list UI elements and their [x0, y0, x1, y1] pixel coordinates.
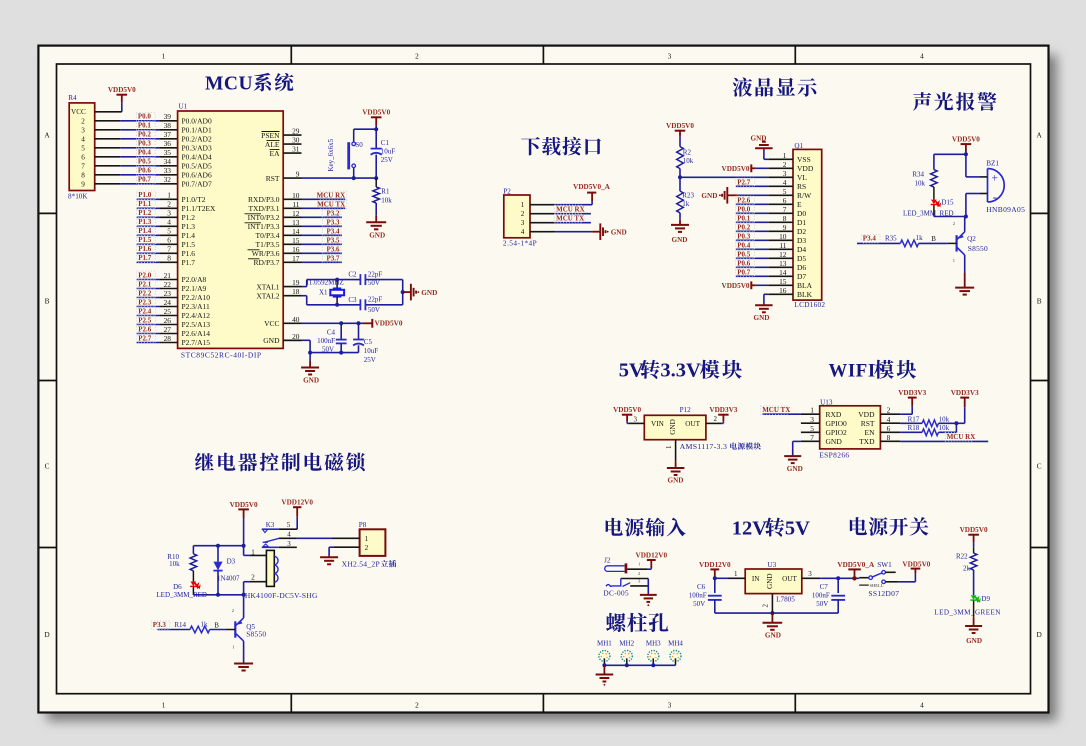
- svg-text:8: 8: [81, 171, 85, 179]
- svg-text:2: 2: [713, 415, 717, 423]
- svg-text:22pF: 22pF: [368, 270, 383, 278]
- svg-text:VDD3V3: VDD3V3: [951, 389, 979, 397]
- svg-text:S0: S0: [355, 141, 363, 149]
- svg-text:P0.7/AD7: P0.7/AD7: [182, 180, 212, 189]
- svg-text:4: 4: [81, 135, 85, 143]
- svg-text:SW1: SW1: [877, 561, 892, 569]
- wire bottom rail: [193, 593, 243, 597]
- svg-text:P2.5/A13: P2.5/A13: [182, 320, 211, 329]
- power port VDD3V3 at U13 VDD: [898, 389, 926, 414]
- svg-text:Q2: Q2: [967, 235, 976, 243]
- svg-text:23: 23: [164, 289, 172, 298]
- svg-text:11: 11: [779, 241, 786, 250]
- svg-text:13: 13: [779, 259, 787, 268]
- svg-text:GND: GND: [421, 289, 437, 297]
- svg-text:VDD3V3: VDD3V3: [898, 389, 926, 397]
- power port VDD5V0 at Q1 pin2: [722, 164, 769, 173]
- svg-text:31: 31: [292, 145, 300, 154]
- svg-text:C5: C5: [364, 338, 373, 346]
- wires P0.0-P0.7 to D0-D7: [736, 205, 769, 277]
- wire U3 pin2 ground: [762, 594, 773, 623]
- svg-text:VCC: VCC: [71, 108, 86, 116]
- svg-text:29: 29: [292, 127, 300, 136]
- svg-text:7: 7: [167, 245, 171, 254]
- svg-text:3: 3: [668, 52, 672, 61]
- wire bottom rail U3: [715, 611, 838, 615]
- svg-text:GND: GND: [765, 631, 781, 639]
- svg-text:7: 7: [81, 162, 85, 170]
- svg-text:21: 21: [164, 271, 172, 280]
- svg-text:1: 1: [162, 52, 166, 61]
- svg-text:GND: GND: [787, 465, 803, 473]
- svg-text:1: 1: [953, 258, 955, 263]
- svg-text:IN: IN: [752, 575, 760, 583]
- svg-text:P2.6/A14: P2.6/A14: [182, 329, 211, 338]
- svg-text:15: 15: [779, 277, 787, 286]
- wires buzzer to rail: [966, 177, 980, 217]
- svg-text:VDD5V0: VDD5V0: [362, 109, 390, 117]
- svg-text:P1.5: P1.5: [138, 236, 152, 244]
- power port VDD5V0_A: [573, 183, 611, 201]
- svg-text:4: 4: [920, 52, 924, 61]
- svg-text:GND: GND: [611, 229, 627, 237]
- svg-text:TXD: TXD: [859, 437, 875, 446]
- svg-text:1: 1: [232, 645, 234, 650]
- svg-text:INT0/P3.2: INT0/P3.2: [248, 213, 280, 222]
- wires R4 to U1 P0 bus: [95, 121, 178, 184]
- svg-text:P3.2: P3.2: [326, 210, 340, 218]
- svg-text:1: 1: [162, 701, 166, 710]
- power port VDD12V0 at U3: [699, 561, 745, 581]
- svg-text:P0.7: P0.7: [138, 176, 152, 184]
- svg-text:P2.1/A9: P2.1/A9: [182, 284, 207, 293]
- svg-text:VDD5V0: VDD5V0: [666, 122, 694, 130]
- capacitor C1: [371, 129, 396, 178]
- svg-text:VDD12V0: VDD12V0: [636, 551, 668, 559]
- svg-text:RST: RST: [861, 419, 875, 428]
- wire MCU TX to RXD: [761, 406, 801, 415]
- svg-text:S8550: S8550: [246, 629, 266, 638]
- svg-text:GND: GND: [672, 236, 688, 244]
- svg-text:EN: EN: [865, 428, 876, 437]
- title download port: [521, 137, 601, 156]
- svg-text:1: 1: [365, 535, 369, 543]
- svg-text:8: 8: [167, 254, 171, 263]
- svg-text:P2.6: P2.6: [737, 196, 751, 204]
- svg-text:P3.4: P3.4: [863, 235, 877, 243]
- svg-text:P3.3: P3.3: [153, 621, 167, 629]
- svg-text:STC89C52RC-40I-DIP: STC89C52RC-40I-DIP: [181, 351, 262, 360]
- wire MCU RX from pin10: [302, 191, 347, 200]
- LED D9: [934, 595, 1001, 617]
- svg-text:PSEN: PSEN: [261, 131, 280, 140]
- svg-text:R4: R4: [68, 94, 77, 102]
- svg-text:1: 1: [251, 548, 255, 556]
- svg-text:B: B: [931, 235, 936, 243]
- svg-text:D2: D2: [797, 227, 806, 236]
- svg-text:GND: GND: [263, 336, 280, 345]
- svg-text:VDD5V0: VDD5V0: [375, 320, 403, 328]
- svg-text:2: 2: [638, 571, 640, 576]
- svg-text:1: 1: [638, 562, 640, 567]
- svg-text:P0.1: P0.1: [138, 122, 152, 130]
- svg-text:3: 3: [810, 415, 814, 424]
- svg-text:1: 1: [783, 151, 787, 160]
- svg-text:2.54-1*4P: 2.54-1*4P: [503, 239, 537, 248]
- svg-text:P0.4: P0.4: [138, 149, 152, 157]
- svg-text:P0.2/AD2: P0.2/AD2: [182, 135, 212, 144]
- svg-text:P1.0: P1.0: [138, 191, 152, 199]
- pin numbers 21-28: [164, 271, 172, 343]
- svg-text:35: 35: [164, 148, 172, 157]
- svg-text:D: D: [1037, 630, 1042, 639]
- svg-text:P0.6: P0.6: [737, 259, 751, 267]
- LED D15: [903, 199, 954, 218]
- svg-text:P1.5: P1.5: [182, 240, 196, 249]
- svg-text:3: 3: [167, 209, 171, 218]
- svg-text:VDD12V0: VDD12V0: [699, 561, 731, 569]
- regulator U3 L7805: [745, 561, 802, 604]
- svg-text:GND: GND: [303, 377, 319, 385]
- capacitor C4: [317, 323, 347, 353]
- diode D3: [213, 546, 240, 595]
- svg-text:10k: 10k: [915, 179, 926, 187]
- svg-text:P1.3: P1.3: [182, 222, 196, 231]
- ground at P12: [665, 440, 685, 485]
- svg-text:4: 4: [783, 178, 787, 187]
- svg-text:P3.5: P3.5: [326, 237, 340, 245]
- ground port at crystal: [403, 284, 438, 301]
- svg-text:P0.0: P0.0: [737, 205, 751, 213]
- svg-text:P2.1: P2.1: [138, 280, 152, 288]
- svg-text:P1.4: P1.4: [138, 227, 152, 235]
- wire alarm top rail: [934, 152, 968, 177]
- svg-text:P2.0/A8: P2.0/A8: [182, 275, 207, 284]
- svg-text:P0.3: P0.3: [138, 140, 152, 148]
- svg-text:R34: R34: [912, 170, 924, 178]
- svg-text:P0.1: P0.1: [737, 214, 751, 222]
- svg-text:P1.7: P1.7: [182, 258, 196, 267]
- svg-text:R18: R18: [908, 424, 920, 432]
- net labels P1.0-P1.7: [137, 191, 156, 263]
- svg-text:11.0592MHZ: 11.0592MHZ: [306, 279, 344, 287]
- svg-text:9: 9: [296, 170, 300, 179]
- svg-text:4: 4: [287, 531, 291, 539]
- svg-text:28: 28: [164, 334, 172, 343]
- svg-text:P1.1/T2EX: P1.1/T2EX: [182, 204, 217, 213]
- resistor R18: [900, 424, 956, 436]
- svg-text:RST: RST: [266, 174, 280, 183]
- svg-text:8: 8: [887, 433, 891, 442]
- wire TXD MCU RX: [900, 433, 988, 442]
- svg-text:P1.6: P1.6: [138, 245, 152, 253]
- ground at Q5: [234, 663, 253, 671]
- svg-text:EA: EA: [270, 149, 281, 158]
- VCC rail wire: [302, 321, 364, 325]
- svg-text:25V: 25V: [364, 356, 376, 364]
- svg-text:VDD5V0: VDD5V0: [230, 501, 258, 509]
- svg-text:10: 10: [292, 191, 300, 200]
- svg-text:38: 38: [164, 121, 172, 130]
- svg-text:25: 25: [164, 307, 172, 316]
- svg-text:9: 9: [783, 223, 787, 232]
- svg-text:100nF: 100nF: [812, 592, 830, 600]
- resistor R2: [677, 147, 694, 178]
- svg-text:14: 14: [292, 227, 300, 236]
- title MCU system: [205, 73, 293, 94]
- svg-text:2: 2: [415, 701, 419, 710]
- svg-text:10uF: 10uF: [364, 347, 379, 355]
- capacitor C6: [689, 578, 722, 613]
- svg-text:13: 13: [292, 218, 300, 227]
- svg-text:VSS: VSS: [797, 155, 811, 164]
- svg-text:17: 17: [292, 254, 300, 263]
- svg-text:2: 2: [762, 604, 770, 608]
- svg-text:6: 6: [783, 196, 787, 205]
- svg-text:1: 1: [665, 445, 673, 449]
- svg-text:12: 12: [779, 250, 787, 259]
- svg-text:14: 14: [779, 268, 787, 277]
- wire P2.6 to E: [736, 196, 769, 205]
- svg-text:VDD5V0: VDD5V0: [722, 282, 750, 290]
- svg-text:37: 37: [164, 130, 172, 139]
- svg-text:P0.0: P0.0: [138, 113, 152, 121]
- svg-text:7: 7: [783, 205, 787, 214]
- svg-text:VDD: VDD: [858, 410, 875, 419]
- svg-text:P1.2: P1.2: [138, 209, 152, 217]
- svg-text:C: C: [45, 462, 50, 471]
- title relay control lock: [195, 452, 365, 471]
- power port VDD3V3 at P12: [706, 406, 738, 423]
- svg-text:B: B: [45, 297, 50, 306]
- wire MCU RX to P2 pin2: [555, 205, 591, 214]
- ground port at P2: [592, 223, 627, 240]
- resistor R35: [885, 234, 947, 247]
- svg-text:5: 5: [81, 144, 85, 152]
- svg-text:P0.6: P0.6: [138, 167, 152, 175]
- svg-text:P0.4/AD4: P0.4/AD4: [182, 153, 212, 162]
- svg-text:20: 20: [292, 332, 300, 341]
- svg-text:C4: C4: [327, 328, 336, 336]
- svg-text:P1.0/T2: P1.0/T2: [182, 195, 206, 204]
- svg-text:36: 36: [164, 139, 172, 148]
- svg-text:2: 2: [415, 52, 419, 61]
- svg-text:P2.4/A12: P2.4/A12: [182, 311, 211, 320]
- U1 left pin stubs P1 P2: [137, 199, 178, 342]
- svg-text:HNB09A05: HNB09A05: [986, 205, 1025, 214]
- svg-text:3: 3: [81, 126, 85, 134]
- svg-text:GND: GND: [826, 437, 843, 446]
- svg-text:22pF: 22pF: [368, 296, 383, 304]
- switch SW1: [859, 561, 899, 598]
- svg-text:D3: D3: [227, 557, 236, 565]
- svg-text:3: 3: [668, 701, 672, 710]
- svg-text:INT1/P3.3: INT1/P3.3: [248, 222, 280, 231]
- svg-text:ALE: ALE: [265, 140, 280, 149]
- ground at R23: [671, 220, 689, 244]
- svg-text:27: 27: [164, 325, 172, 334]
- resistor R17: [900, 415, 956, 426]
- svg-text:10k: 10k: [381, 196, 392, 204]
- svg-text:19: 19: [292, 278, 300, 287]
- svg-text:5: 5: [783, 187, 787, 196]
- svg-text:D0: D0: [797, 209, 806, 218]
- svg-text:6: 6: [887, 424, 891, 433]
- svg-text:P2.7: P2.7: [737, 178, 751, 186]
- svg-text:VDD5V0_A: VDD5V0_A: [837, 561, 875, 569]
- pin numbers 1-8: [167, 191, 171, 263]
- svg-text:10k: 10k: [939, 415, 950, 423]
- connector J2 DC-005: [603, 557, 648, 598]
- mounting holes MH1-MH4: [597, 639, 683, 665]
- wire reset top rail: [354, 127, 379, 131]
- title WIFI module: [829, 360, 917, 382]
- svg-text:4: 4: [521, 228, 525, 236]
- title power input: [606, 518, 686, 537]
- svg-text:2k: 2k: [963, 564, 971, 572]
- svg-text:10uF: 10uF: [381, 147, 396, 155]
- svg-text:P0.5: P0.5: [138, 158, 152, 166]
- svg-text:+: +: [992, 172, 999, 184]
- power port VDD5V0 right of switch: [902, 560, 930, 573]
- svg-text:2: 2: [232, 608, 234, 613]
- svg-text:Key_6x6x5: Key_6x6x5: [327, 138, 335, 171]
- power port VDD5V0_A at switch: [837, 561, 875, 581]
- svg-text:D: D: [44, 630, 49, 639]
- svg-text:XTAL1: XTAL1: [256, 282, 279, 291]
- ground at C4 C5: [301, 353, 319, 385]
- svg-text:5V: 5V: [785, 517, 810, 539]
- svg-text:P2.7: P2.7: [138, 334, 152, 342]
- svg-text:GND: GND: [966, 637, 982, 645]
- svg-text:2: 2: [365, 544, 369, 552]
- key S0: [327, 129, 363, 178]
- svg-text:D6: D6: [173, 583, 182, 591]
- wire R18 to junction: [954, 421, 958, 432]
- svg-text:P0.3: P0.3: [737, 232, 751, 240]
- transistor Q2: [947, 217, 988, 274]
- capacitor C3: [348, 296, 382, 314]
- svg-text:P0.6/AD6: P0.6/AD6: [182, 171, 212, 180]
- svg-text:P2.3: P2.3: [138, 298, 152, 306]
- svg-text:50V: 50V: [322, 346, 334, 354]
- svg-text:33: 33: [164, 166, 172, 175]
- buzzer BZ1: [979, 160, 1025, 214]
- ground at D9: [965, 617, 982, 645]
- svg-text:P3.3: P3.3: [326, 219, 340, 227]
- power port VDD5V0 at reset: [362, 109, 390, 130]
- svg-text:22: 22: [164, 280, 172, 289]
- svg-text:RS: RS: [797, 182, 806, 191]
- svg-text:50V: 50V: [368, 279, 380, 287]
- svg-text:U3: U3: [767, 561, 776, 569]
- ground at Q1 pin16: [754, 294, 773, 322]
- resistor R10: [167, 546, 196, 582]
- svg-text:GND: GND: [754, 314, 770, 322]
- svg-text:C6: C6: [697, 583, 706, 591]
- svg-text:VL: VL: [797, 173, 807, 182]
- svg-text:15: 15: [292, 236, 300, 245]
- svg-text:D1: D1: [797, 218, 806, 227]
- net labels P0.0-P0.7: [136, 112, 155, 184]
- wire J2 to ground: [647, 579, 649, 595]
- svg-text:P0.1/AD1: P0.1/AD1: [182, 126, 212, 135]
- wire coil pin2 down: [242, 582, 246, 597]
- IC U13 ESP8266: [801, 399, 900, 460]
- svg-text:5: 5: [287, 521, 291, 529]
- svg-text:SS12D07: SS12D07: [868, 589, 899, 598]
- svg-text:16: 16: [292, 245, 300, 254]
- relay K3 contact: [262, 521, 297, 548]
- svg-text:P0.0/AD0: P0.0/AD0: [182, 117, 212, 126]
- svg-text:7: 7: [810, 433, 814, 442]
- svg-text:50V: 50V: [368, 306, 380, 314]
- ground at Q1 pin1: [751, 135, 773, 160]
- resistor R34: [912, 154, 937, 199]
- wire MCU TX to P2 pin3: [555, 214, 591, 223]
- svg-text:34: 34: [164, 157, 172, 166]
- svg-text:BLA: BLA: [797, 281, 813, 290]
- svg-text:P0.2: P0.2: [138, 131, 152, 139]
- power port VDD5V0 at VCC: [363, 319, 403, 328]
- svg-text:VDD5V0: VDD5V0: [952, 136, 980, 144]
- svg-text:5: 5: [810, 424, 814, 433]
- svg-text:MCU RX: MCU RX: [317, 191, 346, 199]
- wire R4 VCC to VDD5V0: [95, 111, 122, 113]
- power port VDD5V0 at alarm: [952, 136, 980, 155]
- ground at U13: [784, 441, 803, 472]
- power port VDD5V0 at R22: [960, 526, 988, 547]
- svg-text:P2.0: P2.0: [138, 271, 152, 279]
- relay K3 coil: [244, 548, 318, 600]
- svg-text:VDD3V3: VDD3V3: [709, 406, 737, 414]
- power port VDD5V0 at R4: [108, 86, 136, 112]
- svg-text:VDD12V0: VDD12V0: [281, 499, 313, 507]
- title power switch: [850, 517, 929, 536]
- svg-text:VDD5V0: VDD5V0: [108, 86, 136, 94]
- svg-text:MCU RX: MCU RX: [556, 205, 585, 213]
- connector Q1 LCD1602: [768, 142, 825, 309]
- svg-text:10k: 10k: [683, 157, 694, 165]
- svg-text:GND: GND: [701, 192, 717, 200]
- svg-text:D6: D6: [797, 263, 806, 272]
- svg-text:XH2.54_2P: XH2.54_2P: [342, 560, 380, 569]
- svg-text:4: 4: [167, 218, 171, 227]
- svg-text:GPIO0: GPIO0: [826, 419, 848, 428]
- svg-text:2: 2: [783, 160, 787, 169]
- svg-text:MCU TX: MCU TX: [762, 406, 790, 414]
- svg-text:R2: R2: [683, 148, 692, 156]
- svg-text:P2.7/A15: P2.7/A15: [182, 338, 211, 347]
- svg-text:D15: D15: [941, 199, 954, 207]
- power port VDD5V0 at BLA: [722, 281, 769, 290]
- svg-text:1N4007: 1N4007: [217, 574, 240, 582]
- svg-text:50V: 50V: [693, 600, 705, 608]
- wire LED to collector rail: [934, 215, 968, 219]
- title LCD display: [733, 78, 817, 97]
- svg-text:A: A: [44, 131, 50, 140]
- svg-text:3: 3: [808, 570, 812, 578]
- svg-text:U1: U1: [179, 103, 188, 111]
- svg-text:P12: P12: [680, 406, 692, 414]
- svg-text:R22: R22: [956, 553, 968, 561]
- ground at mounting holes: [596, 665, 614, 685]
- svg-text:P2: P2: [503, 187, 511, 195]
- svg-text:P1.2: P1.2: [182, 213, 196, 222]
- U1 right pin stubs and numbers: [283, 127, 301, 341]
- svg-text:A: A: [1037, 131, 1043, 140]
- svg-text:D4: D4: [797, 245, 806, 254]
